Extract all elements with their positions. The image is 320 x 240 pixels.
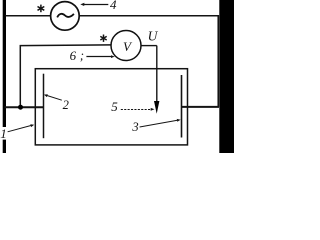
asterisk at voltmeter (100, 35, 106, 42)
svg-text:6: 6 (70, 48, 77, 63)
wire bottom left (left bar to electrode 2) (5, 106, 44, 108)
label 2 leader arrow (47, 96, 62, 101)
svg-text:U: U (148, 29, 159, 44)
svg-text:2: 2 (63, 98, 69, 112)
AC source G1 circle (51, 2, 80, 31)
svg-text:4: 4 (110, 0, 117, 12)
svg-text:1: 1 (0, 126, 7, 141)
wire voltmeter loop (vertical + horizontal to voltmeter) (20, 45, 110, 107)
voltmeter PV circle (111, 31, 141, 61)
junction dot (18, 105, 23, 110)
wire voltmeter right to U corner (141, 45, 156, 47)
label 6 leader arrow (86, 56, 111, 58)
label 1 leader arrow (8, 126, 31, 132)
border frame left bar top (3, 0, 6, 127)
label 5 leader arrow (121, 109, 151, 111)
svg-text:5: 5 (111, 99, 118, 114)
wire top left (from left bar to AC source) (6, 15, 51, 17)
AC source sine symbol (57, 14, 74, 18)
wire U vertical down (156, 46, 158, 102)
wire right vertical (217, 15, 219, 107)
electrode 3 (right plate) (181, 75, 183, 138)
border frame left bar bottom (3, 140, 6, 153)
label 3 leader arrow (140, 120, 178, 127)
svg-text:;: ; (80, 49, 84, 63)
asterisk at AC source (38, 5, 45, 13)
wire top right (AC source to right vertical) (80, 15, 219, 17)
electrode 2 (left plate) (43, 74, 45, 139)
arrow down into vessel (level pointer) (154, 101, 159, 114)
label 4 leader arrow (84, 4, 108, 6)
border frame right bar (219, 0, 234, 153)
svg-text:3: 3 (131, 120, 138, 134)
vessel (bath) rectangle (35, 69, 187, 145)
wire bottom right (right vertical to electrode 3) (182, 106, 219, 108)
